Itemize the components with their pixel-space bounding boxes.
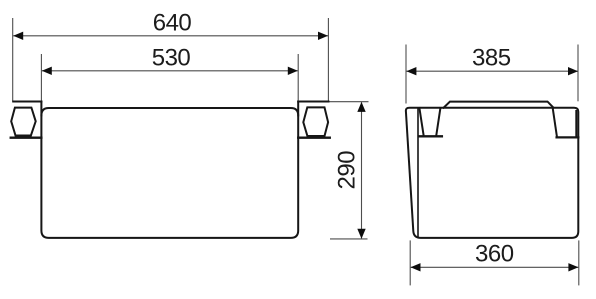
svg-text:360: 360 (475, 241, 514, 268)
svg-text:290: 290 (333, 151, 360, 190)
svg-text:530: 530 (152, 45, 191, 72)
svg-text:385: 385 (472, 44, 511, 71)
svg-text:640: 640 (153, 10, 192, 37)
